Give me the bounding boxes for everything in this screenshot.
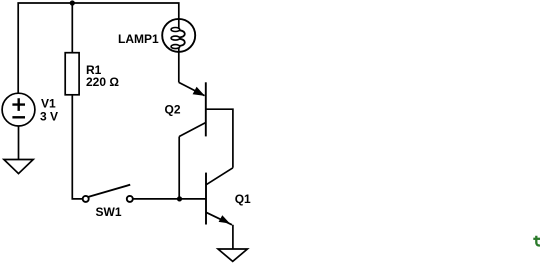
node junction top (R1 tap) xyxy=(70,0,75,5)
wire R1 bottom down to SW1 xyxy=(72,95,82,199)
Q1 bar xyxy=(205,173,207,225)
svg-text:Q2: Q2 xyxy=(165,102,181,116)
Q2 emitter (arrow into bar) xyxy=(179,82,205,95)
svg-text:V1: V1 xyxy=(41,97,56,111)
transistor Q1 (NPN) xyxy=(206,168,233,225)
svg-text:LAMP1: LAMP1 xyxy=(118,32,159,46)
svg-text:3 V: 3 V xyxy=(40,110,58,124)
wire lamp bottom to Q2 emitter xyxy=(178,52,180,83)
Q2 base lead to right xyxy=(206,109,233,168)
wire V1 bottom to ground xyxy=(18,126,20,160)
wire top rail from V1 to lamp xyxy=(18,3,179,93)
transistor Q2 (PNP) xyxy=(179,82,233,168)
wire junction down to R1 top xyxy=(71,3,73,53)
voltage source V1 xyxy=(2,93,35,126)
svg-text:220 Ω: 220 Ω xyxy=(86,75,119,89)
Q2 bar xyxy=(205,82,207,136)
Q2 collector diagonal to lower-left xyxy=(179,123,206,137)
svg-text:SW1: SW1 xyxy=(96,205,122,219)
Q1 collector diagonal from upper-right xyxy=(206,168,233,185)
switch SW1 xyxy=(83,185,133,202)
watermark green t (cropped logo) xyxy=(533,236,540,246)
lamp LAMP1 xyxy=(162,19,195,52)
ground (left, under V1) xyxy=(4,160,33,174)
node junction bottom (SW1/Q1 base/Q2 collector) xyxy=(177,196,182,201)
ground (right, under Q1) xyxy=(218,249,247,261)
wire Q1 emitter to ground xyxy=(232,225,234,249)
resistor R1 xyxy=(65,53,79,95)
Q1 emitter (arrow away) xyxy=(206,212,232,225)
wire Q2 collector down to junction xyxy=(178,137,180,199)
svg-text:Q1: Q1 xyxy=(235,192,251,206)
wire SW1 to Q1 base xyxy=(133,198,206,200)
label R1 value xyxy=(86,63,119,89)
label V1 value xyxy=(40,97,58,124)
